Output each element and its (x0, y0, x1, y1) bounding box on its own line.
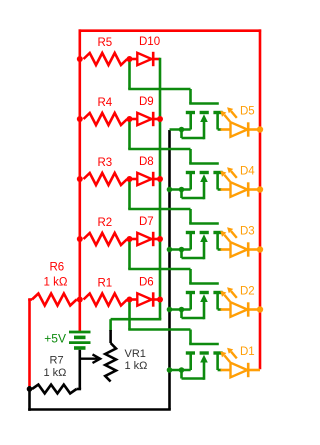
transistor Q2 drain stem (216, 294, 219, 310)
svg-text:+5V: +5V (44, 332, 66, 346)
wire gate feed Q1 from node R1/D6 (128, 300, 131, 330)
svg-text:R6: R6 (50, 262, 65, 274)
wire top +5V rail (79, 29, 262, 32)
svg-text:R7: R7 (50, 355, 64, 367)
wire body loop Q5 (180, 130, 183, 139)
wire right LED cathode bus (259, 29, 262, 369)
wire gate feed Q3 from node R3/D8 (128, 179, 131, 209)
node cathode bus junction D7 (157, 236, 163, 242)
diode D7 (130, 238, 138, 241)
node source bus junction Q1 (167, 367, 173, 373)
transistor Q1 body arrow (200, 355, 208, 363)
svg-text:D8: D8 (139, 156, 154, 168)
LED D2 (221, 308, 231, 311)
svg-text:D4: D4 (240, 166, 255, 178)
wire source line Q5 (170, 128, 191, 131)
transistor Q4 body arrow (200, 174, 208, 182)
svg-text:D10: D10 (139, 36, 160, 48)
node junction R2/D7 (127, 236, 133, 242)
svg-text:D6: D6 (139, 277, 154, 289)
transistor Q3 gate bar (189, 222, 219, 225)
LED D4 (221, 188, 231, 191)
transistor Q5 gate bar (189, 102, 219, 105)
node left bus junction row R2 (77, 236, 83, 242)
node R6/R7/return junction (27, 386, 33, 392)
LED D2 emission arrows (224, 295, 230, 302)
transistor Q2 body arrow (200, 294, 208, 302)
node body tie Q5 (179, 127, 185, 133)
wire body loop Q4 (180, 190, 183, 199)
diode D10 (130, 58, 138, 61)
transistor Q2 channel segments (186, 291, 195, 294)
transistor Q5 drain stem (216, 114, 219, 130)
transistor Q5 channel segments (186, 111, 195, 114)
transistor Q3 body arrow (200, 234, 208, 242)
wire drain to LED D3 (218, 248, 222, 251)
svg-text:1 kΩ: 1 kΩ (44, 277, 68, 289)
wire gate feed Q4 from node R4/D9 (128, 119, 131, 149)
diode D8 (130, 178, 138, 181)
node cathode bus junction D6 (157, 297, 163, 303)
svg-text:D1: D1 (240, 346, 255, 358)
wire left return riser (black part) (28, 386, 31, 411)
node body tie Q2 (179, 307, 185, 313)
transistor Q3 source stem (189, 234, 192, 250)
resistor R5 (80, 58, 83, 61)
wire source line Q2 (170, 308, 191, 311)
resistor R1 (80, 298, 83, 301)
node source bus junction Q4 (167, 187, 173, 193)
transistor Q4 drain stem (216, 174, 219, 190)
svg-text:VR1: VR1 (125, 348, 146, 360)
wire MOSFET source bus (black) (168, 130, 171, 410)
transistor Q1 source stem (189, 354, 192, 370)
transistor Q1 drain stem (216, 354, 219, 370)
transistor Q4 source stem (189, 174, 192, 190)
node junction R3/D8 (127, 176, 133, 182)
svg-text:D5: D5 (240, 106, 255, 118)
node D3 cathode to bus (257, 246, 263, 252)
node body tie Q3 (179, 247, 185, 253)
wire drain to LED D1 (218, 369, 222, 372)
wire drain to LED D4 (218, 188, 222, 191)
wire drain to LED D5 (218, 128, 222, 131)
transistor Q2 gate bar (189, 282, 219, 285)
node cathode bus junction D9 (157, 116, 163, 122)
wire VR1 top lead (109, 319, 112, 331)
wire bottom return (28, 408, 171, 411)
LED D4 emission arrows (224, 175, 230, 182)
svg-text:R4: R4 (98, 97, 113, 109)
svg-text:D9: D9 (139, 96, 154, 108)
diode D9 (130, 118, 138, 121)
battery +5V (69, 331, 91, 334)
node D4 cathode to bus (257, 186, 263, 192)
node left bus junction row R4 (77, 116, 83, 122)
node cathode bus junction D8 (157, 176, 163, 182)
wire battery negative stem (79, 350, 82, 389)
resistor R4 (80, 118, 83, 121)
transistor Q3 channel segments (186, 231, 195, 234)
wire drain to LED D2 (218, 308, 222, 311)
svg-text:1 kΩ: 1 kΩ (44, 367, 67, 379)
wire body loop Q1 (180, 370, 183, 379)
node junction R4/D9 (127, 116, 133, 122)
svg-text:D2: D2 (240, 286, 255, 298)
transistor Q2 source stem (189, 294, 192, 310)
node junction R5/D10 (127, 56, 133, 62)
wire source line Q4 (170, 188, 191, 191)
resistor R7 (30, 388, 33, 391)
node D5 cathode to bus (257, 126, 263, 132)
svg-text:D7: D7 (139, 216, 154, 228)
svg-text:R1: R1 (98, 278, 113, 290)
svg-text:R3: R3 (98, 157, 113, 169)
transistor Q4 channel segments (186, 171, 195, 174)
wire cathode bus jog toward VR1 (111, 318, 162, 321)
node body tie Q4 (179, 187, 185, 193)
node left bus junction row R3 (77, 176, 83, 182)
node D2 cathode to bus (257, 306, 263, 312)
diode D6 (130, 298, 138, 301)
svg-text:R2: R2 (98, 217, 113, 229)
transistor Q1 gate bar (189, 343, 219, 346)
node left bus junction row R1 (77, 297, 83, 303)
wire left +5V bus (79, 29, 82, 332)
node left bus junction row R5 (77, 56, 83, 62)
LED D3 (221, 248, 231, 251)
potentiometer VR1 (109, 330, 112, 343)
transistor Q1 channel segments (186, 351, 195, 354)
node body tie Q1 (179, 367, 185, 373)
resistor R6 (28, 298, 32, 301)
svg-text:R5: R5 (98, 37, 113, 49)
LED D3 emission arrows (224, 235, 230, 242)
node junction R1/D6 (127, 297, 133, 303)
wire body loop Q2 (180, 310, 183, 319)
transistor Q3 drain stem (216, 234, 219, 250)
wire gate feed Q2 from node R2/D7 (128, 239, 131, 269)
wire source line Q3 (170, 248, 191, 251)
LED D1 emission arrows (224, 355, 230, 362)
resistor R3 (80, 178, 83, 181)
svg-text:D3: D3 (240, 226, 255, 238)
LED D5 (221, 128, 231, 131)
transistor Q5 source stem (189, 114, 192, 130)
svg-text:1 kΩ: 1 kΩ (125, 360, 148, 372)
LED D1 (221, 369, 231, 372)
transistor Q4 gate bar (189, 162, 219, 165)
node source bus junction Q3 (167, 247, 173, 253)
potentiometer VR1 wiper arrow (80, 358, 98, 360)
wire left riser to R6 (red part) (28, 299, 31, 386)
wire diode cathode bus vertical (159, 58, 162, 320)
node source bus junction Q2 (167, 307, 173, 313)
wire gate feed Q5 from node R5/D10 (128, 59, 131, 89)
wire source line Q1 (170, 369, 191, 372)
LED D5 emission arrows (224, 115, 230, 122)
transistor Q5 body arrow (200, 114, 208, 122)
resistor R2 (80, 238, 83, 241)
wire body loop Q3 (180, 250, 183, 259)
